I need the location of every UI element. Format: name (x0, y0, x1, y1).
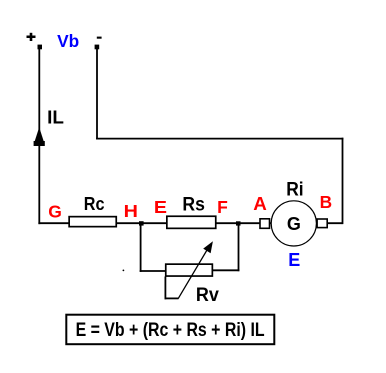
svg-text:G: G (287, 214, 301, 234)
svg-text:Rs: Rs (182, 195, 205, 216)
svg-text:E: E (154, 197, 167, 217)
svg-text:E = Vb + (Rc + Rs + Ri) IL: E = Vb + (Rc + Rs + Ri) IL (76, 320, 265, 341)
svg-text:G: G (48, 202, 62, 222)
svg-text:Ri: Ri (286, 179, 303, 200)
svg-text:Rc: Rc (84, 194, 105, 214)
svg-text:Rv: Rv (196, 285, 219, 306)
svg-text:Vb: Vb (57, 31, 79, 51)
svg-text:IL: IL (47, 107, 64, 127)
svg-text:B: B (320, 192, 332, 212)
svg-text:E: E (288, 250, 300, 270)
svg-text:A: A (253, 193, 267, 214)
svg-text:H: H (124, 201, 138, 221)
svg-text:F: F (217, 197, 228, 217)
